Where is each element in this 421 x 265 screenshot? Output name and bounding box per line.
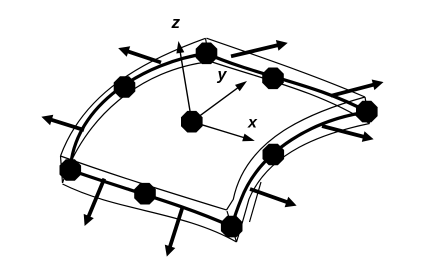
svg-text:y: y	[217, 67, 228, 84]
svg-text:z: z	[171, 13, 181, 32]
y-axis	[192, 87, 239, 122]
node O (origin)	[181, 111, 203, 133]
top surface outline edge A'B' (thin, upper-left of edge AB)	[61, 38, 206, 156]
bottom face silhouette near corner C (short thin line)	[250, 182, 262, 222]
node A (top corner)	[196, 43, 218, 65]
top surface outline edge B'C' (thin, above edge BC)	[61, 156, 227, 210]
node mid-BC	[134, 183, 156, 205]
top surface outline edge C'D' (thin, upper-left of edge CD)	[227, 97, 366, 210]
arrow 8 right-upper	[331, 84, 375, 96]
bottom surface outline edge B''C'' (thin, below edge BC)	[63, 184, 237, 242]
node C (bottom corner)	[221, 216, 243, 238]
arrow 2 top-right	[231, 45, 279, 56]
corner C thickness cap	[227, 211, 237, 242]
arrow 6 bottom-right	[250, 189, 288, 203]
arrow 4 lower-left	[88, 179, 104, 218]
corner A thickness cap	[206, 38, 210, 58]
mid-surface edge CD (thick)	[232, 112, 367, 227]
mid-surface edge AB (thick)	[70, 54, 206, 171]
arrow 3 far-left	[50, 119, 84, 130]
arrow 5 bottom	[170, 207, 183, 249]
arrow 7 right-lower	[322, 126, 365, 137]
bottom surface outline edge A''B'' (thin, inner side of edge AB)	[63, 62, 211, 184]
arrow 1 upper-left	[127, 51, 162, 63]
node mid-AB	[114, 76, 136, 98]
corner C cap outer line	[236, 216, 239, 237]
mid-surface edge DA (thick)	[207, 54, 367, 112]
top surface outline edge A'D' (thin straight)	[207, 38, 366, 97]
x-axis	[192, 122, 245, 138]
bottom surface outline edge A''D'' (thin)	[211, 62, 370, 124]
node D (right corner)	[356, 101, 378, 123]
node B (left corner)	[60, 159, 82, 181]
corner B thickness cap	[61, 156, 63, 183]
node mid-CD	[263, 144, 285, 166]
node mid-DA	[262, 68, 284, 90]
mid-surface edge BC (thick)	[71, 170, 232, 227]
z-axis	[180, 51, 192, 122]
corner D thickness cap	[365, 97, 370, 124]
bottom surface outline edge C''D'' (thin, lower-right of edge CD)	[237, 124, 370, 243]
svg-text:x: x	[247, 115, 258, 132]
